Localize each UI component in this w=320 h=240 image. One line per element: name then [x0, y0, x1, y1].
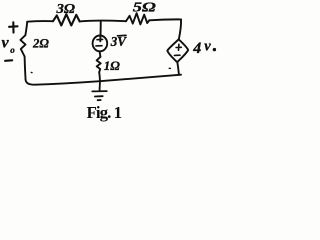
- svg-text:3Ω: 3Ω: [55, 1, 75, 16]
- svg-text:v: v: [2, 35, 10, 52]
- voltage source 3V circle: [93, 36, 108, 52]
- svg-text:5Ω: 5Ω: [133, 1, 157, 16]
- wire top-right segment: [149, 18, 181, 21]
- ground: [92, 81, 107, 100]
- wire middle lower (1ohm to bottom wire): [98, 72, 101, 81]
- wire right upper (to diamond): [179, 19, 181, 39]
- source plus crossbar: [97, 38, 103, 40]
- ink speck left: [30, 72, 33, 74]
- ink speck right: [169, 67, 170, 69]
- svg-text:4: 4: [192, 40, 201, 57]
- wire top-left segment: [27, 20, 53, 23]
- wire bottom: [26, 75, 181, 85]
- wire middle upper (junction to source): [99, 21, 101, 42]
- resistor 2ohm: [20, 22, 27, 57]
- svg-text:1Ω: 1Ω: [104, 59, 121, 73]
- wire right lower (diamond to bottom corner): [177, 63, 179, 75]
- resistor 1ohm: [97, 57, 101, 72]
- svg-text:v: v: [204, 39, 211, 55]
- wire left lower segment: [25, 57, 26, 80]
- svg-text:o: o: [10, 45, 15, 55]
- plus sign of vo: [9, 22, 17, 32]
- wire middle (circle to 1ohm): [99, 51, 102, 57]
- dependent source diamond 4vo: [167, 39, 188, 62]
- svg-text:3V: 3V: [110, 34, 127, 49]
- wire top-middle segment: [80, 20, 126, 23]
- resistor 5ohm: [126, 13, 149, 24]
- source minus sign: [96, 45, 102, 47]
- diamond minus sign: [174, 54, 180, 56]
- svg-text:2Ω: 2Ω: [32, 36, 49, 51]
- diamond plus sign: [176, 44, 181, 50]
- svg-text:Fig. 1: Fig. 1: [87, 103, 122, 122]
- resistor 3ohm: [53, 14, 80, 25]
- minus sign of vo: [5, 59, 12, 62]
- overline of V in 3V label: [118, 34, 127, 36]
